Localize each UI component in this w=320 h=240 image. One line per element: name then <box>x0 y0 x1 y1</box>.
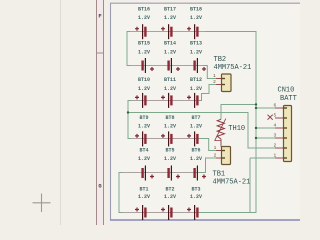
svg-text:1: 1 <box>213 73 216 79</box>
svg-text:4: 4 <box>273 122 276 128</box>
svg-text:1.2V: 1.2V <box>138 15 150 21</box>
svg-text:1.2V: 1.2V <box>138 156 150 162</box>
svg-text:1: 1 <box>273 152 276 158</box>
svg-text:BT8: BT8 <box>165 115 174 121</box>
svg-text:1.2V: 1.2V <box>164 124 176 130</box>
svg-text:1.2V: 1.2V <box>164 15 176 21</box>
svg-text:BT17: BT17 <box>164 7 176 13</box>
svg-text:1.2V: 1.2V <box>138 124 150 130</box>
svg-text:2: 2 <box>213 79 216 85</box>
svg-text:3: 3 <box>273 132 276 138</box>
svg-text:1.2V: 1.2V <box>164 50 176 56</box>
svg-text:1.2V: 1.2V <box>164 156 176 162</box>
svg-text:1: 1 <box>214 145 217 151</box>
svg-text:BT1: BT1 <box>139 187 148 193</box>
svg-text:BATT: BATT <box>280 95 297 103</box>
svg-text:1.2V: 1.2V <box>190 156 202 162</box>
svg-text:BT16: BT16 <box>138 7 150 13</box>
svg-text:1.2V: 1.2V <box>164 194 176 200</box>
svg-text:BT10: BT10 <box>138 77 150 83</box>
svg-text:1.2V: 1.2V <box>190 15 202 21</box>
svg-text:BT15: BT15 <box>138 40 150 46</box>
svg-text:1.2V: 1.2V <box>190 194 202 200</box>
svg-text:BT6: BT6 <box>191 148 200 154</box>
svg-text:BT13: BT13 <box>190 40 202 46</box>
svg-text:2: 2 <box>273 142 276 148</box>
svg-text:1.2V: 1.2V <box>190 50 202 56</box>
svg-text:1.2V: 1.2V <box>190 124 202 130</box>
svg-text:BT2: BT2 <box>165 187 174 193</box>
svg-text:BT7: BT7 <box>191 115 200 121</box>
svg-text:TB2: TB2 <box>214 56 227 64</box>
svg-text:BT11: BT11 <box>164 77 176 83</box>
svg-text:BT5: BT5 <box>165 148 174 154</box>
svg-text:BT4: BT4 <box>139 148 148 154</box>
svg-text:CN10: CN10 <box>278 86 295 94</box>
svg-text:TH10: TH10 <box>228 125 245 133</box>
svg-text:6: 6 <box>273 102 276 108</box>
svg-text:TB1: TB1 <box>213 170 226 178</box>
svg-text:BT3: BT3 <box>191 187 200 193</box>
svg-text:1.2V: 1.2V <box>138 194 150 200</box>
svg-text:BT9: BT9 <box>139 115 148 121</box>
svg-text:1.2V: 1.2V <box>164 86 176 92</box>
svg-text:2: 2 <box>214 152 217 158</box>
svg-text:BT12: BT12 <box>190 77 202 83</box>
svg-text:4MM75A-21: 4MM75A-21 <box>214 64 252 72</box>
svg-text:F: F <box>98 13 101 20</box>
svg-text:BT14: BT14 <box>164 40 176 46</box>
svg-text:1.2V: 1.2V <box>190 86 202 92</box>
svg-text:4MM75A-21: 4MM75A-21 <box>213 178 251 186</box>
svg-text:1.2V: 1.2V <box>138 50 150 56</box>
svg-text:BT18: BT18 <box>190 7 202 13</box>
svg-text:5: 5 <box>273 112 276 118</box>
svg-text:1.2V: 1.2V <box>138 86 150 92</box>
